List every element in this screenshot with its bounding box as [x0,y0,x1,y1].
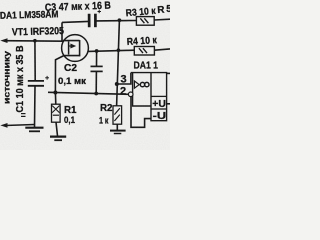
scan dirt marks [21,114,26,117]
label R3 10k [125,6,156,20]
label R1 [64,105,77,116]
label VT1 IRF3205 [12,26,65,38]
wire C2 top lead [96,51,98,66]
C3 plus mark [98,10,102,13]
label R2 [100,103,113,114]
wire C2 bottom lead [95,71,97,93]
wire C1 bottom lead [34,86,37,128]
wire source to R1 [54,93,56,105]
label -U [153,111,167,122]
node C1 top [33,39,37,43]
wire bottom terminal to C1 [5,125,35,126]
ground under R1 [50,137,66,141]
label pin 3 [121,74,127,86]
wire R4 to right edge [154,49,170,50]
VT1 gate electrode [68,42,70,55]
label R1 value [64,115,76,126]
label C2 [64,63,77,74]
label +U [152,99,166,110]
ground under C1 [25,128,43,132]
label к источнику (vertical) [3,50,12,104]
wire source diagonal from VT1 [55,56,63,93]
node pin3 tap [115,82,119,86]
wire setpoint riser (top wire to R2) [117,20,120,106]
label C3 value [45,1,112,14]
terminal arrow bottom [0,123,7,128]
op-amp DA1.1 box [131,73,167,121]
wire R2 bottom [116,124,118,130]
label DA1 1 [134,61,159,72]
op-amp cell line +U top [151,95,167,97]
output pin tick [167,72,170,74]
resistor R2 [113,106,122,124]
capacitor C1 [28,81,44,86]
label C2 value [58,76,86,87]
transistor VT1 body [62,35,89,62]
node top wire / setpoint riser [118,18,122,22]
node C2 top [95,49,99,53]
R3 power marks [140,18,148,23]
inverting input bubble [128,92,133,97]
wire -U to inverting node [131,97,151,128]
wire gate to R4 [88,50,134,51]
label R4 10k [127,35,158,48]
capacitor C3 [89,14,95,28]
R1 inner X mark [52,106,59,113]
node C2 bottom [94,92,98,96]
op-amp cell line divider [151,108,167,110]
R4 power marks [139,48,147,53]
label DA1 LM358AM [0,9,59,22]
wire R3 to right edge [154,18,170,21]
VT1 drain tap [63,40,80,42]
op-amp triangle infinity [134,81,139,88]
R2 inner marks [114,108,119,121]
label R2 value [99,115,109,126]
capacitor C2 [91,66,103,71]
paper noise overlay [0,0,1,1]
label C1 value (vertical) [15,46,26,113]
R1 inner bar [53,114,59,116]
wire top to C3 [62,21,89,22]
wire source sense [48,92,129,94]
VT1 channel [79,40,81,56]
+U pin tick [167,103,170,105]
wire drain riser [61,22,63,41]
resistor R4 [134,47,154,56]
terminal arrow top (to source) [0,38,7,43]
VT1 substrate arrow [69,45,71,47]
ground under R2 [110,131,126,134]
label pin 2 [120,85,126,97]
resistor R1 [52,104,61,122]
C1 plus mark [45,76,49,80]
wire pin 3 [118,73,131,84]
node source / R1 [53,91,57,95]
VT1 source tap [64,55,80,57]
node gate wire / riser cross [117,48,121,52]
wire C3 to R3 [96,20,136,22]
wire R1 bottom [56,122,58,136]
wire drain to terminal [5,40,64,43]
wire C1 top lead [34,40,36,81]
label R5 partial [157,4,172,16]
resistor R3 [136,17,154,26]
